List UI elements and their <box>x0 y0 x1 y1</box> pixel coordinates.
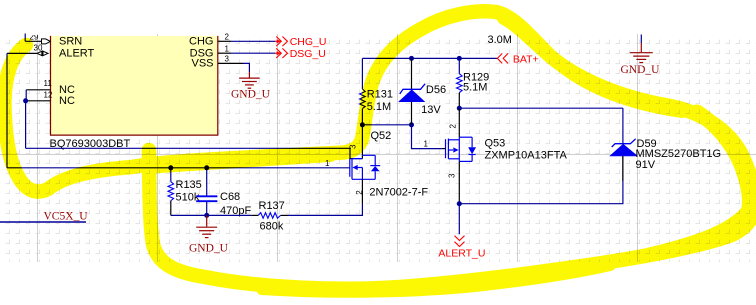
wire DSG to port <box>231 52 275 54</box>
svg-text:3: 3 <box>447 173 456 178</box>
svg-text:1: 1 <box>424 140 429 149</box>
junction dot C68 top <box>204 165 209 170</box>
resistor R135 <box>168 168 174 216</box>
ground GND_U below C68 <box>196 215 217 237</box>
wire CHG to port <box>231 40 275 42</box>
svg-text:VC5X_U: VC5X_U <box>44 211 89 223</box>
transistor Q52 2N7002 <box>350 126 380 204</box>
pin 11 NC stub <box>26 89 50 91</box>
wire VSS to ground <box>243 63 249 72</box>
svg-text:ALERT_U: ALERT_U <box>438 248 485 260</box>
junction dot R129 bottom <box>457 106 462 111</box>
pin 30 ALERT stub and i/o glyph <box>7 51 48 56</box>
svg-text:GND_U: GND_U <box>231 88 271 100</box>
svg-text:R137: R137 <box>259 200 285 212</box>
svg-text:11: 11 <box>44 79 53 88</box>
pin 29 SRN stub and arrow <box>25 34 50 44</box>
resistor R137 <box>251 213 288 219</box>
svg-text:DSG_U: DSG_U <box>290 48 326 60</box>
junction dot R135 top <box>168 165 173 170</box>
resistor R129 <box>457 58 463 108</box>
pin number 29 (clipped at top) <box>30 33 39 42</box>
junction dot R129 top at BAT rail <box>457 56 462 61</box>
svg-text:GND_U: GND_U <box>189 243 229 255</box>
transistor Q53 ZXMP10A13FTA <box>442 108 476 204</box>
svg-text:2: 2 <box>355 190 364 195</box>
wire ALERT_U drop <box>458 204 460 235</box>
svg-text:C68: C68 <box>220 191 240 203</box>
svg-text:GND_U: GND_U <box>621 64 661 76</box>
wire bottom rail R135-C68 <box>171 214 251 216</box>
svg-text:5.1M: 5.1M <box>463 82 487 94</box>
svg-text:NC: NC <box>59 95 75 107</box>
svg-text:3.0M: 3.0M <box>488 34 512 46</box>
svg-text:1: 1 <box>225 45 230 54</box>
junction dot Q53 source / ALERT_U <box>457 201 462 206</box>
ground GND_U at VSS <box>239 72 260 88</box>
port arrow CHG_U <box>275 37 287 47</box>
svg-text:2N7002-7-F: 2N7002-7-F <box>369 187 428 199</box>
wire ALERT left vertical down to gate line <box>6 53 8 167</box>
wire R131 bottom to D56 bottom <box>362 124 411 126</box>
svg-text:13V: 13V <box>421 104 441 116</box>
svg-text:VSS: VSS <box>191 57 213 69</box>
svg-text:Q52: Q52 <box>371 130 392 142</box>
svg-text:ALERT: ALERT <box>59 47 95 59</box>
svg-text:680k: 680k <box>260 221 284 233</box>
capacitor C68 <box>196 168 217 216</box>
svg-text:2: 2 <box>225 33 230 42</box>
port arrow ALERT_U <box>455 236 465 247</box>
wire Q53 source to D59 bottom <box>459 156 623 204</box>
wire NC12 down to line A <box>25 101 27 149</box>
zener diode D56 <box>399 58 425 124</box>
junction dot D56 top at BAT rail <box>409 56 414 61</box>
svg-text:SRN: SRN <box>59 35 82 47</box>
wire NC pins L-join <box>25 90 27 101</box>
svg-text:ZXMP10A13FTA: ZXMP10A13FTA <box>485 150 568 162</box>
port arrow BAT+ <box>497 53 508 63</box>
port arrow DSG_U <box>275 48 287 58</box>
junction dot D56 bottom <box>409 122 414 127</box>
wire BAT+ rail <box>362 57 497 59</box>
wire line B gate rail <box>7 167 350 169</box>
junction dot R131 bottom <box>360 122 365 127</box>
pin 3 VSS stub <box>218 62 243 64</box>
svg-text:CHG: CHG <box>189 35 213 47</box>
junction dot C68 bottom <box>204 213 209 218</box>
pin 12 NC stub <box>25 100 50 102</box>
pin 1 DSG stub <box>218 52 231 54</box>
svg-text:R135: R135 <box>176 179 202 191</box>
junction dot NC12 <box>23 98 28 103</box>
svg-text:BAT+: BAT+ <box>513 53 539 65</box>
svg-text:3: 3 <box>225 55 230 64</box>
svg-text:2: 2 <box>448 124 457 129</box>
net label VC5X_U wire <box>0 221 86 223</box>
svg-text:12: 12 <box>44 91 53 100</box>
pin 2 CHG stub <box>218 40 231 42</box>
IC U1 BQ7693003DBT body <box>51 36 218 135</box>
wire line A horizontal to Q52 drain <box>26 148 363 158</box>
resistor R131 <box>360 58 366 124</box>
wire R129 bottom to D59 column <box>459 107 623 109</box>
svg-text:91V: 91V <box>636 159 656 171</box>
svg-text:CHG_U: CHG_U <box>290 36 327 48</box>
ground GND_U top right <box>630 35 653 63</box>
wire D56 bottom to Q53 gate <box>412 125 442 149</box>
wire Q52 source down-left <box>288 204 362 216</box>
svg-text:Q53: Q53 <box>485 138 506 150</box>
zener diode D59 <box>610 108 637 181</box>
svg-text:D56: D56 <box>426 84 446 96</box>
